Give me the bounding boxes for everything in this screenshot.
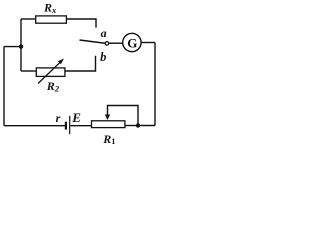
wire: outer left vertical	[3, 47, 5, 126]
svg-text:b: b	[100, 50, 106, 64]
resistor R2 (variable)	[36, 68, 65, 77]
svg-text:Rx: Rx	[43, 0, 57, 15]
svg-text:R2: R2	[46, 79, 60, 93]
resistor Rx	[36, 16, 67, 23]
wire: left branch bracket vertical	[20, 19, 22, 71]
wire: galvanometer to right vertical	[141, 42, 155, 44]
wire: R2 branch left segment	[21, 70, 36, 72]
galvanometer G	[123, 33, 141, 51]
svg-text:a: a	[101, 26, 107, 40]
svg-text:G: G	[127, 36, 137, 51]
R1 slider tap wire	[108, 106, 139, 126]
wire: junction to outer left wire	[4, 46, 21, 48]
wire: pivot to galvanometer	[109, 42, 123, 44]
svg-text:R1: R1	[102, 132, 115, 146]
R1 slider arrowhead	[105, 115, 110, 121]
battery positive plate E (long)	[69, 116, 71, 134]
wire: top branch right segment to contact a stub	[67, 19, 97, 28]
node junction on left branch	[19, 44, 23, 48]
node junction at R1 tap	[136, 123, 140, 127]
wire: bottom left to battery	[4, 125, 65, 127]
battery negative plate (short)	[65, 122, 67, 130]
svg-text:E: E	[71, 110, 81, 125]
wire: outer right vertical	[154, 43, 156, 126]
wire: junction to R1	[125, 125, 138, 127]
svg-text:r: r	[56, 111, 61, 125]
arrow through R2	[38, 61, 61, 83]
wire: R2 branch right segment to contact b stub	[65, 56, 96, 71]
switch blade	[80, 40, 106, 43]
wire: bottom right to junction	[138, 125, 155, 127]
switch pivot contact circle	[105, 42, 109, 46]
wire: battery to R1	[70, 125, 91, 127]
resistor R1 (rheostat)	[92, 121, 125, 128]
wire: top branch left segment	[21, 18, 35, 20]
